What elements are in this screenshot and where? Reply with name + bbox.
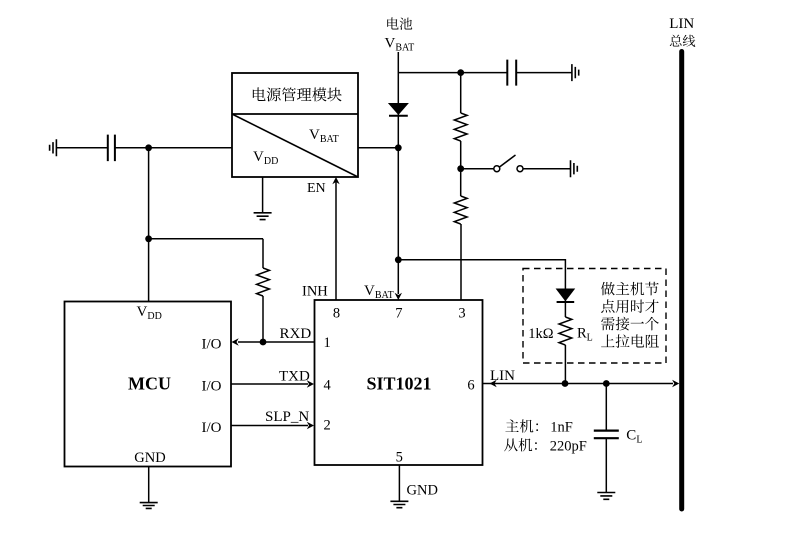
label 从机: 220pF bbox=[504, 438, 587, 454]
wire RL to LIN bbox=[564, 345, 566, 384]
battery label 电池 VBAT bbox=[385, 17, 415, 53]
svg-text:LIN: LIN bbox=[490, 368, 515, 384]
wire SLP_N bbox=[231, 422, 314, 429]
arrow into pin 7 bbox=[395, 293, 402, 300]
svg-text:RXD: RXD bbox=[280, 326, 312, 342]
MCU box bbox=[65, 302, 232, 467]
node pullup branch junction bbox=[145, 235, 152, 242]
wire left ground to capacitor bbox=[56, 147, 107, 149]
node VDD junction bbox=[145, 144, 152, 151]
node RXD pullup junction bbox=[260, 339, 267, 346]
svg-text:1nF: 1nF bbox=[550, 420, 573, 436]
label 总线 bbox=[670, 35, 695, 47]
wire LIN bbox=[483, 380, 680, 387]
svg-text:5: 5 bbox=[396, 449, 403, 465]
svg-text:1: 1 bbox=[324, 335, 331, 351]
svg-text:8: 8 bbox=[333, 306, 340, 322]
wire divider branch upper lead bbox=[460, 73, 462, 113]
wire VDD down to MCU bbox=[148, 148, 150, 302]
wire power module VBAT output to rail bbox=[358, 147, 398, 149]
wire EN to INH bbox=[332, 177, 339, 300]
ground (battery filter cap) bbox=[572, 64, 579, 81]
wire diode to VBAT rail and down to pin 7 bbox=[397, 114, 399, 294]
svg-text:INH: INH bbox=[302, 284, 328, 300]
ground (switch) bbox=[571, 160, 578, 177]
SIT1021 box bbox=[315, 300, 483, 465]
svg-text:7: 7 bbox=[395, 306, 402, 322]
diode D1 bbox=[389, 104, 408, 116]
ground (SIT1021 GND pin 5) bbox=[390, 465, 408, 508]
capacitor VDD decoupling bbox=[108, 135, 232, 162]
svg-text:3: 3 bbox=[458, 306, 465, 322]
node top branch junction bbox=[457, 69, 464, 76]
svg-text:220pF: 220pF bbox=[550, 438, 587, 454]
wire resistor to switch junction bbox=[460, 141, 462, 196]
node switch junction bbox=[457, 165, 464, 172]
wire VBAT top branch to capacitor bbox=[398, 72, 507, 74]
wire VBAT to pullup diode bbox=[398, 260, 565, 289]
svg-text:4: 4 bbox=[324, 378, 332, 394]
wire pullup branch lead bbox=[262, 239, 264, 268]
svg-text:2: 2 bbox=[324, 418, 331, 434]
wire pullup branch horizontal bbox=[149, 238, 263, 240]
capacitor CL bbox=[594, 431, 619, 439]
power module box 电源管理模块 bbox=[232, 73, 358, 177]
resistor RXD pullup bbox=[257, 268, 270, 296]
label 主机: 1nF bbox=[505, 419, 572, 435]
svg-text:MCU: MCU bbox=[128, 374, 171, 394]
switch S1 bbox=[464, 155, 571, 172]
resistor divider upper bbox=[454, 113, 467, 141]
wire CL lower lead bbox=[605, 438, 607, 492]
wire to pin 3 bbox=[460, 224, 462, 300]
node RL junction bbox=[562, 380, 569, 387]
wire battery VBAT vertical bbox=[397, 52, 399, 104]
LIN bus bar bbox=[679, 52, 684, 510]
wire TXD bbox=[231, 380, 314, 387]
svg-text:1kΩ: 1kΩ bbox=[528, 326, 554, 342]
note text 做主机节点用时才需接一个上拉电阻 bbox=[601, 282, 659, 348]
node VBAT rail junction bbox=[395, 144, 402, 151]
svg-text:LIN: LIN bbox=[669, 16, 694, 32]
capacitor battery filter bbox=[507, 60, 572, 86]
svg-text:TXD: TXD bbox=[279, 369, 310, 385]
svg-text:GND: GND bbox=[407, 483, 438, 499]
svg-text:I/O: I/O bbox=[202, 337, 222, 353]
resistor divider lower bbox=[454, 196, 467, 224]
dashed box master node pullup bbox=[523, 269, 666, 364]
resistor RL 1kΩ bbox=[559, 317, 572, 345]
svg-text:I/O: I/O bbox=[202, 379, 222, 395]
ground (MCU) bbox=[140, 467, 158, 509]
node pullup feed junction bbox=[395, 256, 402, 263]
svg-text:SLP_N: SLP_N bbox=[265, 409, 309, 425]
svg-text:EN: EN bbox=[307, 181, 326, 196]
wire CL upper lead bbox=[605, 384, 607, 431]
svg-text:GND: GND bbox=[134, 450, 165, 466]
ground (CL) bbox=[597, 493, 615, 500]
ground (power module) bbox=[254, 177, 272, 220]
ground (VDD rail left) bbox=[50, 139, 57, 156]
diode D2 (pullup) bbox=[557, 289, 575, 302]
wire diode to RL bbox=[564, 301, 566, 318]
svg-text:6: 6 bbox=[467, 378, 474, 394]
wire pullup to RXD node bbox=[262, 296, 264, 342]
svg-text:I/O: I/O bbox=[202, 420, 222, 436]
svg-text:SIT1021: SIT1021 bbox=[366, 374, 431, 394]
node CL junction bbox=[603, 380, 610, 387]
wire RXD bbox=[232, 338, 315, 345]
